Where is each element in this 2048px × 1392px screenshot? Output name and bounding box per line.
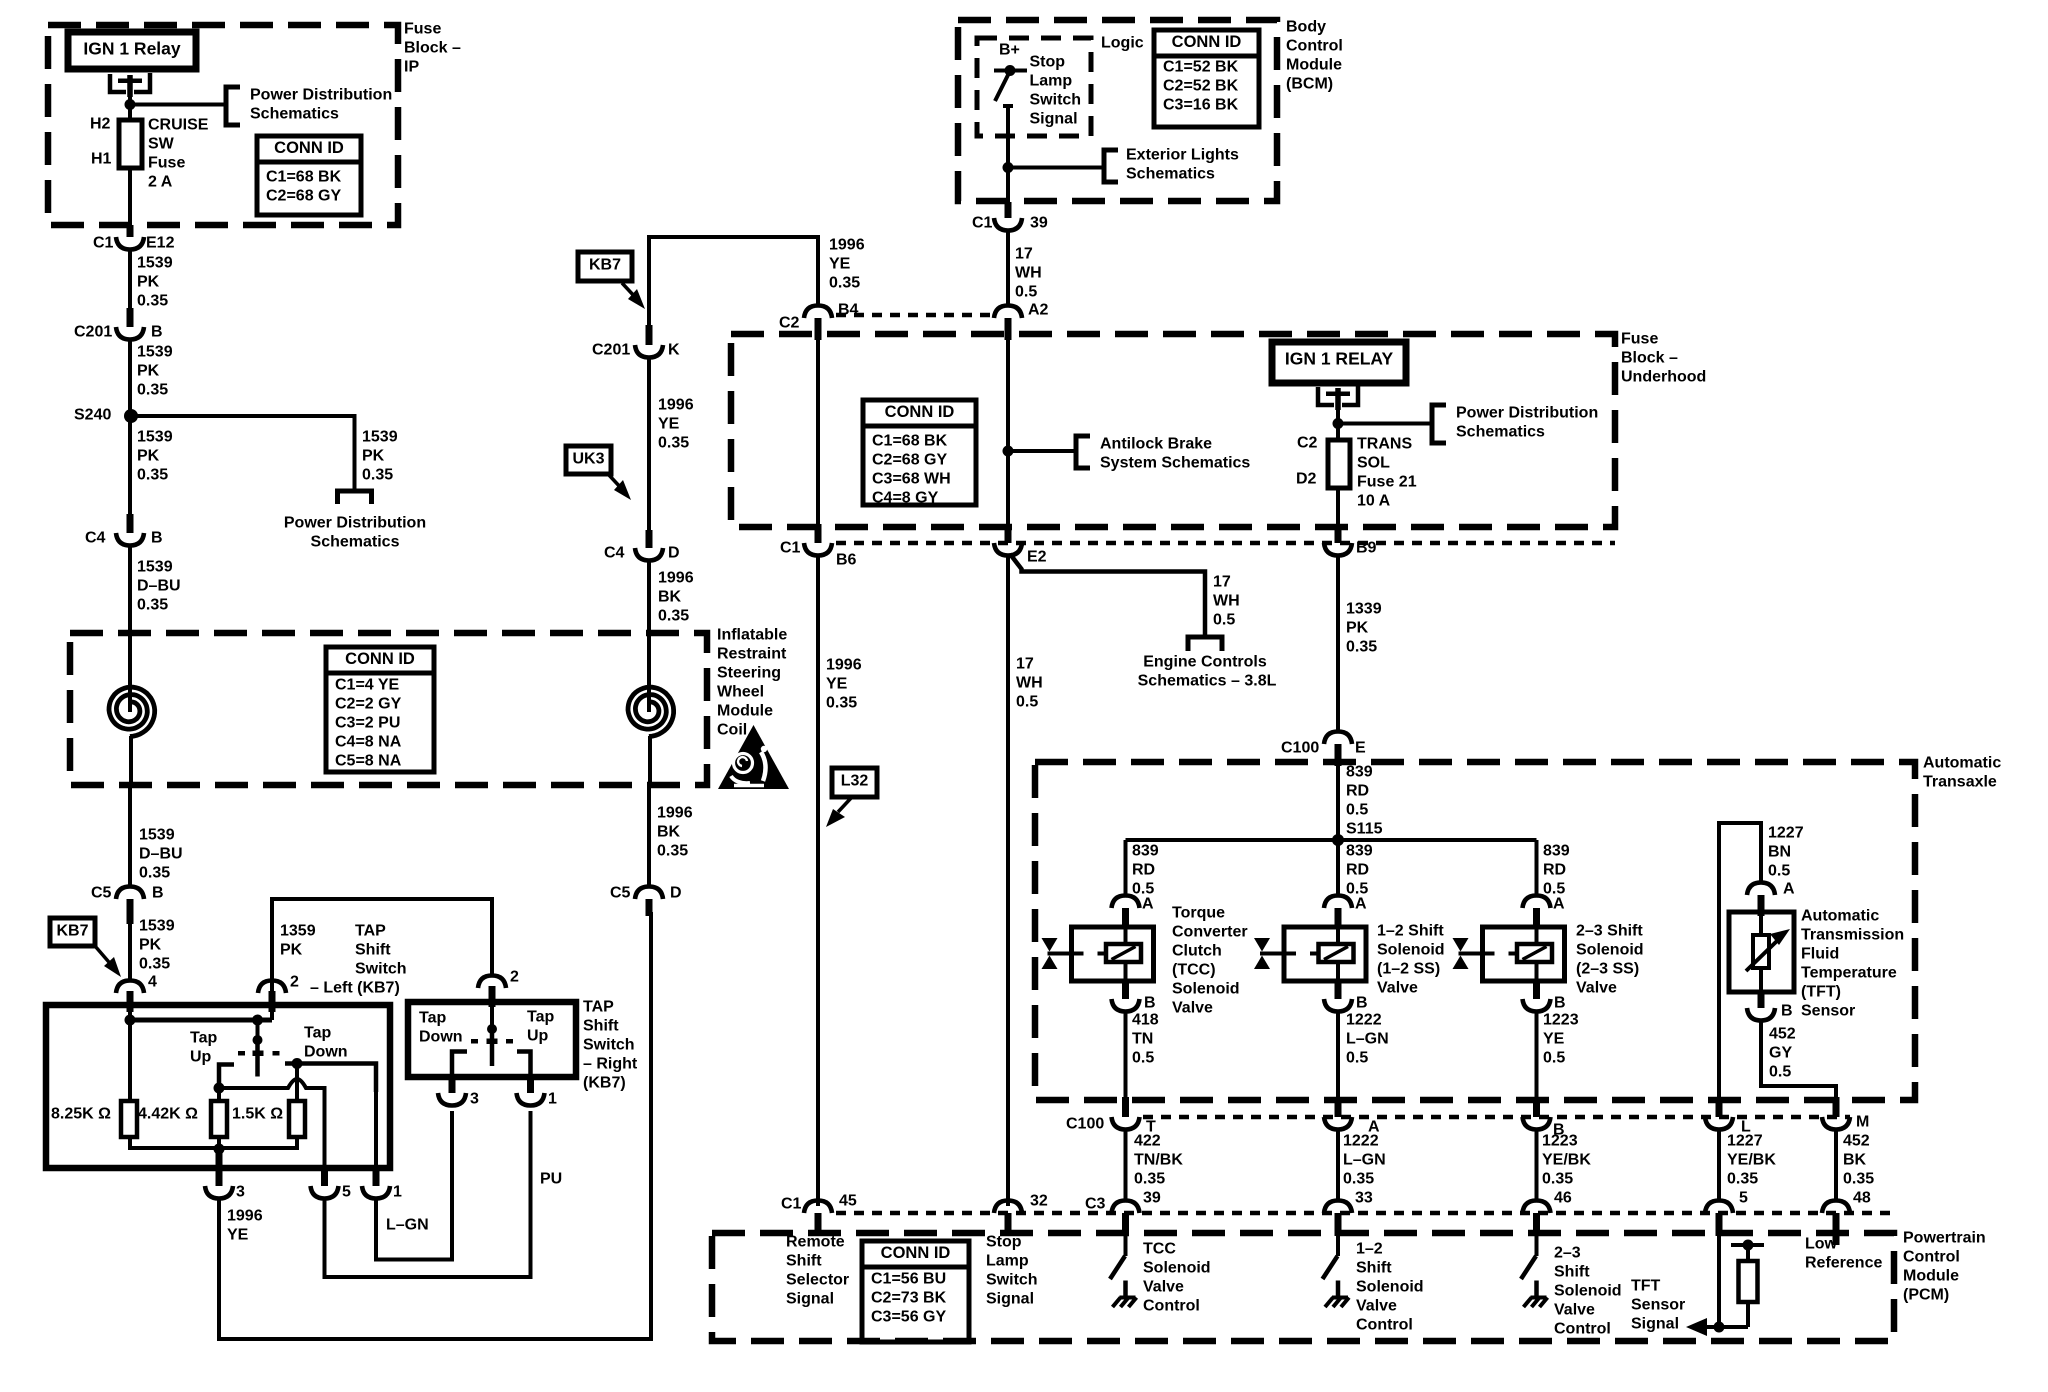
svg-text:Signal: Signal	[1030, 111, 1078, 128]
svg-text:Body: Body	[1286, 19, 1326, 36]
svg-text:Shift: Shift	[583, 1018, 619, 1035]
svg-text:K: K	[668, 342, 680, 359]
connector A2 arc	[994, 306, 1022, 319]
svg-text:Transaxle: Transaxle	[1923, 774, 1997, 791]
svg-text:32: 32	[1030, 1193, 1048, 1210]
left clockspring coil	[109, 687, 155, 736]
stub C2-B4	[815, 318, 822, 340]
svg-text:48: 48	[1853, 1190, 1871, 1207]
wire label 1996 YE 0.35 (below C201-K)	[658, 397, 694, 452]
svg-text:418: 418	[1132, 1012, 1159, 1029]
stop lamp switch blade	[995, 73, 1009, 101]
stub PCM-5	[1716, 1213, 1723, 1236]
TCC text	[1172, 905, 1248, 1017]
svg-text:L32: L32	[841, 773, 869, 790]
svg-text:Valve: Valve	[1356, 1298, 1397, 1315]
svg-text:1223: 1223	[1542, 1133, 1578, 1150]
coil module label	[717, 627, 787, 739]
junction dot pin4/R1	[125, 1015, 136, 1026]
svg-text:1.5K Ω: 1.5K Ω	[232, 1106, 283, 1123]
svg-text:1222: 1222	[1346, 1012, 1382, 1029]
svg-text:0.35: 0.35	[658, 608, 689, 625]
svg-text:1539: 1539	[139, 918, 175, 935]
wire pin2 into box	[270, 1012, 274, 1020]
svg-text:45: 45	[839, 1193, 857, 1210]
svg-text:C5=8 NA: C5=8 NA	[335, 753, 402, 770]
wire B9 to C100-E	[1336, 556, 1340, 731]
svg-text:WH: WH	[1015, 265, 1042, 282]
TAP left box title	[310, 923, 407, 997]
svg-text:C3=2 PU: C3=2 PU	[335, 715, 400, 732]
svg-text:RD: RD	[1543, 862, 1566, 879]
connector A arc (1-2)	[1324, 896, 1352, 909]
wire label 17 WH 0.5 (E2 branch)	[1213, 574, 1240, 629]
wire label 1996 YE 0.35 (B6 column)	[826, 657, 862, 712]
svg-text:TAP: TAP	[583, 999, 614, 1016]
TCC solenoid valve control text	[1143, 1241, 1211, 1315]
connector B arc (1-2)	[1324, 999, 1352, 1012]
svg-text:Block –: Block –	[1621, 350, 1678, 367]
svg-text:8.25K Ω: 8.25K Ω	[51, 1106, 111, 1123]
stub C100-L	[1716, 1097, 1723, 1117]
remote shift selector text	[786, 1234, 849, 1308]
power distribution schematics text (S240)	[284, 515, 426, 551]
connector C4-D arc	[635, 548, 663, 561]
fuse block underhood dashed box	[731, 334, 1615, 527]
svg-text:Temperature: Temperature	[1801, 965, 1897, 982]
stop lamp switch signal text	[986, 1234, 1038, 1308]
svg-text:5: 5	[342, 1184, 351, 1201]
wire label 1996 YE (pin3)	[227, 1208, 263, 1244]
svg-text:A2: A2	[1028, 302, 1049, 319]
stub C1-39	[1005, 202, 1012, 218]
UK3 label box	[566, 446, 611, 474]
svg-text:Transmission: Transmission	[1801, 927, 1904, 944]
stub B (TCC)	[1122, 981, 1129, 999]
svg-text:39: 39	[1143, 1190, 1161, 1207]
svg-text:Inflatable: Inflatable	[717, 627, 787, 644]
svg-text:C2: C2	[1297, 435, 1318, 452]
PCM pullup supply bar	[1731, 1240, 1764, 1251]
tap down contact (right)	[452, 1052, 467, 1078]
svg-text:Tap: Tap	[527, 1009, 554, 1026]
svg-text:0.35: 0.35	[1727, 1171, 1758, 1188]
svg-text:Logic: Logic	[1101, 35, 1144, 52]
svg-text:B+: B+	[999, 42, 1020, 59]
svg-text:Wheel: Wheel	[717, 684, 764, 701]
inflatable restraint coil dashed box	[70, 633, 707, 785]
TFT sensor signal text	[1631, 1278, 1685, 1333]
junction dot relay (underhood)	[1333, 418, 1344, 429]
wire label 839 RD 0.5 (TCC)	[1132, 843, 1159, 898]
stub C100-T	[1122, 1097, 1129, 1117]
svg-text:C201: C201	[592, 342, 630, 359]
svg-text:Underhood: Underhood	[1621, 369, 1706, 386]
svg-text:C100: C100	[1281, 740, 1319, 757]
svg-text:Block –: Block –	[404, 40, 461, 57]
connector pin1 arc (left)	[362, 1186, 390, 1199]
svg-text:0.35: 0.35	[1343, 1171, 1374, 1188]
svg-text:Module: Module	[1903, 1268, 1959, 1285]
svg-text:M: M	[1856, 1114, 1869, 1131]
svg-text:PK: PK	[280, 942, 303, 959]
connector A arc (TCC)	[1112, 896, 1140, 909]
resistor bottom bus	[130, 1137, 297, 1148]
junction dot exterior lights	[1003, 162, 1014, 173]
wire S115 to 2-3	[1535, 840, 1539, 896]
svg-text:1996: 1996	[227, 1208, 263, 1225]
svg-text:CONN ID: CONN ID	[1172, 33, 1242, 51]
svg-text:CONN ID: CONN ID	[881, 1244, 951, 1262]
wire C5-B to pin4	[128, 924, 132, 981]
power distribution schematics text (IP)	[250, 87, 392, 123]
wire E2 to PCM 32	[1006, 556, 1010, 1206]
svg-text:Converter: Converter	[1172, 924, 1248, 941]
svg-text:IGN 1 Relay: IGN 1 Relay	[83, 39, 181, 59]
svg-text:0.35: 0.35	[658, 435, 689, 452]
svg-text:Control: Control	[1143, 1298, 1200, 1315]
svg-text:YE: YE	[829, 256, 851, 273]
wire C100-T to C3-39	[1124, 1130, 1128, 1201]
svg-text:C1=52 BK: C1=52 BK	[1163, 59, 1239, 76]
svg-text:Valve: Valve	[1377, 980, 1418, 997]
CONN ID table (BCM)	[1154, 30, 1259, 127]
svg-text:Down: Down	[419, 1029, 463, 1046]
svg-text:B: B	[1144, 995, 1156, 1012]
svg-text:Switch: Switch	[583, 1037, 635, 1054]
stub A (1-2)	[1335, 908, 1342, 927]
IGN 1 RELAY box (underhood)	[1272, 342, 1406, 383]
wire B6 through box	[816, 340, 820, 524]
junction dot tapdown/R3	[292, 1058, 303, 1069]
wire C100-A to PCM A	[1336, 1130, 1340, 1201]
KB7 arrow (top)	[622, 283, 645, 309]
TFT sensor box	[1729, 912, 1794, 992]
PCM label	[1903, 1230, 1986, 1304]
svg-text:BN: BN	[1768, 844, 1791, 861]
svg-text:A: A	[1553, 896, 1565, 913]
svg-text:Control: Control	[1903, 1249, 1960, 1266]
power distribution bracket (underhood)	[1432, 405, 1446, 443]
PCM dashed box	[712, 1233, 1894, 1341]
svg-text:0.5: 0.5	[1016, 694, 1038, 711]
svg-text:(KB7): (KB7)	[583, 1075, 626, 1092]
wire label 452 BK 0.35 48	[1843, 1133, 1874, 1188]
automatic transaxle label	[1923, 755, 2001, 791]
switch linkage dashes (right)	[471, 1039, 513, 1045]
svg-text:Schematics: Schematics	[311, 534, 400, 551]
svg-text:C1=68 BK: C1=68 BK	[872, 433, 948, 450]
L32 arrow	[826, 797, 852, 827]
svg-text:Lamp: Lamp	[986, 1253, 1029, 1270]
CONN ID table (PCM)	[862, 1241, 969, 1342]
wire label 17 WH 0.5 (below C1-39)	[1015, 246, 1042, 301]
svg-text:PK: PK	[137, 363, 160, 380]
svg-text:Steering: Steering	[717, 665, 781, 682]
svg-text:39: 39	[1030, 215, 1048, 232]
stub pin 1 (right)	[527, 1077, 534, 1093]
svg-text:CRUISE: CRUISE	[148, 117, 209, 134]
svg-text:Engine Controls: Engine Controls	[1143, 654, 1267, 671]
engine controls bracket	[1188, 637, 1222, 651]
svg-text:BK: BK	[658, 589, 682, 606]
svg-text:1–2 Shift: 1–2 Shift	[1377, 923, 1444, 940]
svg-text:1996: 1996	[826, 657, 862, 674]
svg-text:C4: C4	[85, 530, 106, 547]
stub A (TFT)	[1758, 895, 1765, 916]
svg-text:452: 452	[1769, 1026, 1796, 1043]
svg-text:L–GN: L–GN	[386, 1217, 429, 1234]
wire PCM L to junction	[1717, 1236, 1721, 1327]
fuse TRANS SOL outline	[1328, 440, 1350, 488]
wire label 452 GY 0.5	[1769, 1026, 1796, 1081]
2-3 control text	[1554, 1245, 1622, 1338]
svg-text:1227: 1227	[1768, 825, 1804, 842]
connector PCM-33 arc	[1324, 1201, 1352, 1214]
connector 32 arc	[994, 1201, 1022, 1214]
svg-text:CONN ID: CONN ID	[885, 403, 955, 421]
svg-text:0.35: 0.35	[826, 695, 857, 712]
stub pin 3 (right)	[449, 1077, 456, 1093]
wire label 1223 YE 0.5	[1543, 1012, 1579, 1067]
svg-text:Shift: Shift	[355, 942, 391, 959]
svg-text:TCC: TCC	[1143, 1241, 1176, 1258]
svg-text:Fuse: Fuse	[404, 21, 441, 38]
svg-text:17: 17	[1015, 246, 1033, 263]
svg-text:839: 839	[1346, 764, 1373, 781]
fuse block - IP dashed box	[48, 25, 398, 225]
svg-text:2–3 Shift: 2–3 Shift	[1576, 923, 1643, 940]
exterior lights bracket	[1104, 150, 1118, 182]
stub C201-K	[646, 325, 653, 345]
wire C201-B to S240	[128, 340, 132, 416]
wire label 839 RD 0.5 S115	[1346, 764, 1383, 838]
svg-text:2: 2	[290, 974, 299, 991]
svg-text:17: 17	[1213, 574, 1231, 591]
stub B9	[1335, 524, 1342, 543]
resistor 4.42K body	[211, 1101, 227, 1137]
C100 bottom dash row	[1143, 1115, 1850, 1120]
connector PCM-46 arc	[1523, 1201, 1551, 1214]
antilock text	[1100, 436, 1250, 472]
connector A arc (TFT)	[1747, 883, 1775, 896]
wire label 1539 PK 0.35 (below S240)	[137, 429, 173, 484]
svg-text:C100: C100	[1066, 1116, 1104, 1133]
1-2 shift solenoid valve	[1254, 927, 1366, 981]
svg-text:1223: 1223	[1543, 1012, 1579, 1029]
tap up contact (left)	[219, 1065, 234, 1089]
wire label 1539 PK 0.35 (S240 branch)	[362, 429, 398, 484]
junction dot S115	[1332, 834, 1344, 846]
svg-text:Remote: Remote	[786, 1234, 845, 1251]
svg-text:Tap: Tap	[419, 1010, 446, 1027]
wire label 1222 L-GN 0.35 33	[1343, 1133, 1386, 1188]
svg-text:YE: YE	[1543, 1031, 1565, 1048]
svg-text:Power Distribution: Power Distribution	[1456, 405, 1598, 422]
svg-text:C2=68 GY: C2=68 GY	[266, 188, 341, 205]
svg-text:0.5: 0.5	[1543, 1050, 1565, 1067]
svg-text:B: B	[1356, 995, 1368, 1012]
connector C100-M arc	[1822, 1117, 1850, 1130]
stub C100-A	[1335, 1097, 1342, 1117]
stub C5-D	[646, 899, 653, 916]
svg-text:1–2: 1–2	[1356, 1241, 1383, 1258]
exterior lights text	[1126, 147, 1239, 183]
svg-text:1539: 1539	[137, 559, 173, 576]
TFT wire through box	[1759, 916, 1763, 992]
svg-text:C2=73 BK: C2=73 BK	[871, 1290, 947, 1307]
svg-text:Shift: Shift	[1356, 1260, 1392, 1277]
svg-text:33: 33	[1355, 1190, 1373, 1207]
svg-text:Stop: Stop	[986, 1234, 1022, 1251]
svg-text:Torque: Torque	[1172, 905, 1225, 922]
wire label 1223 YE/BK 0.35 46	[1542, 1133, 1591, 1188]
stub C1-B6	[815, 524, 822, 543]
svg-text:Selector: Selector	[786, 1272, 849, 1289]
svg-text:C4=8 GY: C4=8 GY	[872, 490, 939, 507]
svg-text:YE: YE	[658, 416, 680, 433]
svg-text:C5: C5	[610, 885, 631, 902]
wire label 17 WH 0.5 (E2 down)	[1016, 656, 1043, 711]
svg-text:(TFT): (TFT)	[1801, 984, 1841, 1001]
svg-text:IGN 1 RELAY: IGN 1 RELAY	[1285, 349, 1394, 369]
stub PCM-48	[1833, 1213, 1840, 1245]
svg-text:BK: BK	[657, 824, 681, 841]
svg-text:Signal: Signal	[786, 1291, 834, 1308]
wire pin1 vertical (left)	[374, 1064, 378, 1169]
dashed wire B4 to A2	[836, 313, 990, 318]
wire label 1339 PK 0.35 (B9)	[1346, 601, 1382, 656]
power distribution bracket (S240)	[338, 491, 372, 504]
TAP right box outline	[408, 1002, 576, 1077]
wire label 1222 L-GN 0.5	[1346, 1012, 1389, 1067]
junction dot R2 top	[214, 1083, 225, 1094]
svg-text:Sensor: Sensor	[1631, 1297, 1685, 1314]
connector C5-B arc	[116, 887, 144, 900]
svg-text:0.35: 0.35	[139, 865, 170, 882]
svg-text:CONN ID: CONN ID	[345, 650, 415, 668]
svg-text:422: 422	[1134, 1133, 1161, 1150]
wire pin3 to bottom run	[219, 912, 651, 1339]
svg-text:(2–3 SS): (2–3 SS)	[1576, 961, 1639, 978]
stub E2	[1005, 524, 1012, 543]
wire label 1227 BN 0.5	[1768, 825, 1804, 880]
svg-text:839: 839	[1543, 843, 1570, 860]
svg-text:1539: 1539	[137, 429, 173, 446]
junction dot relay	[125, 99, 136, 110]
svg-text:0.5: 0.5	[1769, 1064, 1791, 1081]
wire C4-B to coil	[128, 546, 132, 706]
svg-text:Fuse: Fuse	[148, 155, 185, 172]
wire label 1539 PK 0.35 (below C201-B)	[137, 344, 173, 399]
right clockspring coil	[628, 687, 674, 736]
svg-text:C2=68 GY: C2=68 GY	[872, 452, 947, 469]
TFT signal arrow	[1686, 1318, 1748, 1336]
connector C100-E arc	[1324, 732, 1352, 745]
stop lamp switch contact	[994, 65, 1027, 76]
svg-text:1539: 1539	[139, 827, 175, 844]
svg-text:1539: 1539	[137, 344, 173, 361]
svg-text:H2: H2	[90, 116, 111, 133]
wire TFT-B to M	[1761, 1021, 1836, 1097]
svg-text:1996: 1996	[829, 237, 865, 254]
connector C1-45 arc	[804, 1201, 832, 1214]
stub pin 5	[321, 1168, 328, 1186]
svg-text:3: 3	[236, 1184, 245, 1201]
wire R2 bottom	[217, 1137, 221, 1148]
svg-text:A: A	[1142, 896, 1154, 913]
junction dot antilock	[1003, 446, 1014, 457]
svg-text:1339: 1339	[1346, 601, 1382, 618]
svg-text:C4=8 NA: C4=8 NA	[335, 734, 402, 751]
wire C1-39 to A2	[1006, 231, 1010, 306]
wire label 1539 D-BU 0.35 (below coil box)	[139, 827, 183, 882]
svg-text:2 A: 2 A	[148, 174, 173, 191]
connector pin 4 arc	[116, 981, 144, 994]
svg-text:SOL: SOL	[1357, 455, 1390, 472]
svg-text:Shift: Shift	[786, 1253, 822, 1270]
wire fuse to box edge (underhood)	[1336, 488, 1340, 524]
junction dot blade pivot (right)	[487, 1024, 497, 1034]
1-2 driver switch	[1323, 1236, 1350, 1307]
stub C4-B	[127, 514, 134, 533]
wire 1-2-B to C100-A	[1336, 1012, 1340, 1097]
svg-text:KB7: KB7	[56, 923, 88, 940]
wire pin1 to right pin3	[376, 1111, 452, 1260]
svg-text:RD: RD	[1346, 862, 1369, 879]
svg-text:TRANS: TRANS	[1357, 436, 1412, 453]
wire R2top stub	[217, 1088, 221, 1101]
wire C100-M to PCM M	[1834, 1130, 1838, 1201]
Tap Down text (right box)	[419, 1010, 463, 1046]
svg-text:A: A	[1355, 896, 1367, 913]
svg-text:Down: Down	[304, 1044, 348, 1061]
svg-text:C5: C5	[91, 885, 112, 902]
stub C4-D	[646, 530, 653, 548]
svg-text:Solenoid: Solenoid	[1554, 1283, 1622, 1300]
BCM label	[1286, 19, 1343, 93]
wire B6 to C1-45	[816, 556, 820, 1206]
dashed connector row underhood	[836, 541, 1615, 546]
BCM dashed box	[958, 20, 1277, 201]
IGN 1 relay pin symbol (underhood)	[1318, 386, 1358, 410]
stub C100-B	[1533, 1097, 1540, 1117]
svg-text:C1: C1	[780, 540, 801, 557]
svg-text:4.42K Ω: 4.42K Ω	[138, 1106, 198, 1123]
svg-text:0.35: 0.35	[1542, 1171, 1573, 1188]
wire A2 through box	[1006, 336, 1010, 524]
svg-text:PU: PU	[540, 1171, 562, 1188]
svg-text:YE/BK: YE/BK	[1542, 1152, 1591, 1169]
stub B (1-2)	[1335, 981, 1342, 999]
svg-text:YE: YE	[826, 676, 848, 693]
stub C1-E12	[127, 225, 134, 237]
svg-text:CONN ID: CONN ID	[274, 139, 344, 157]
connector pin5 arc	[311, 1186, 339, 1199]
connector B9 arc	[1324, 543, 1352, 556]
wire into left coil	[128, 684, 132, 712]
stub A2	[1005, 318, 1012, 340]
svg-text:RD: RD	[1346, 783, 1369, 800]
wire S115 down 1-2	[1336, 840, 1340, 896]
wire S240 branch right	[131, 416, 355, 491]
junction dot TFT signal	[1714, 1322, 1725, 1333]
svg-text:C201: C201	[74, 324, 112, 341]
CONN ID table (coil)	[326, 647, 434, 772]
svg-text:Solenoid: Solenoid	[1356, 1279, 1424, 1296]
connector B arc (TFT)	[1747, 1008, 1775, 1021]
connector PCM-48 arc	[1822, 1201, 1850, 1214]
